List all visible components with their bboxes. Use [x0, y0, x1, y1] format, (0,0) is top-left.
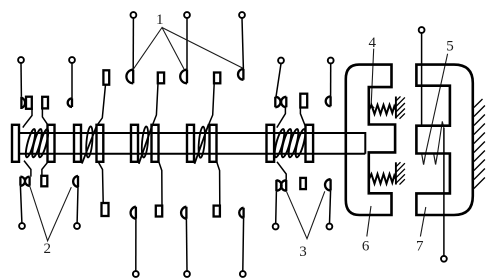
- svg-text:4: 4: [368, 35, 376, 51]
- svg-text:6: 6: [362, 239, 370, 255]
- svg-text:1: 1: [156, 12, 164, 28]
- svg-text:7: 7: [416, 239, 424, 255]
- svg-text:5: 5: [446, 38, 454, 54]
- svg-text:3: 3: [299, 244, 307, 260]
- svg-text:2: 2: [43, 241, 51, 257]
